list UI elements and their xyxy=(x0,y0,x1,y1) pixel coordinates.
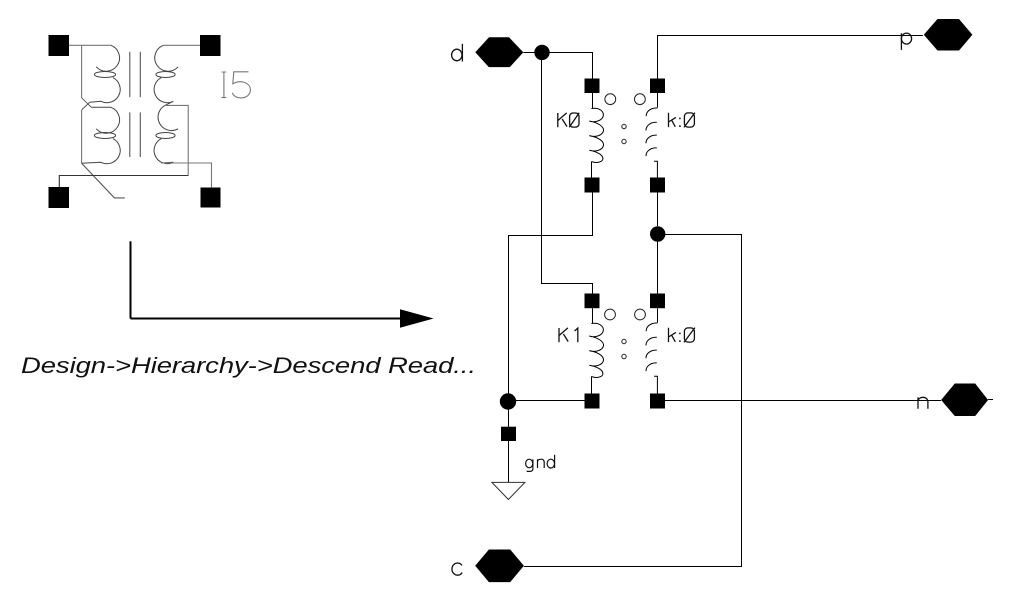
label d xyxy=(452,49,462,61)
terminal square bottom xyxy=(650,178,665,193)
polarity circle K0 xyxy=(605,94,616,105)
transformer symbol I5 xyxy=(49,35,251,208)
polarity circle k:0 xyxy=(635,94,646,105)
coupling dots xyxy=(622,339,626,343)
wire stem xyxy=(654,376,657,393)
coupling dots xyxy=(622,124,626,128)
arrow (descend) xyxy=(131,241,403,318)
pin 2 (top-right square) xyxy=(200,35,221,56)
wire secondary bottom to pin4 xyxy=(161,163,212,188)
arrow head xyxy=(400,309,434,328)
junction dot at d xyxy=(534,45,549,60)
dashed coil xyxy=(646,323,657,371)
pin 4 (bottom-right square) xyxy=(201,188,221,208)
wire secondary mid tap xyxy=(165,105,188,175)
label gnd xyxy=(526,455,555,472)
instance label I5 xyxy=(222,72,251,98)
terminal square K0 bottom xyxy=(585,178,600,193)
wire K0 bottom to ground rail xyxy=(509,193,593,394)
terminal square top xyxy=(650,294,665,309)
pin c hexagon xyxy=(475,550,524,583)
polarity circle xyxy=(635,309,646,320)
crossover X left xyxy=(82,98,92,110)
inductor K1 (primary) xyxy=(559,294,615,409)
pin d hexagon xyxy=(475,37,523,67)
wire left rail upper xyxy=(81,45,83,98)
terminal square K1 bottom xyxy=(585,394,600,409)
primary winding upper loops xyxy=(90,45,121,102)
tap lead (diagonal) xyxy=(82,163,125,198)
gnd terminal square xyxy=(501,427,516,441)
wire stem xyxy=(591,162,593,178)
label k:0 lower xyxy=(669,328,695,343)
label K0 xyxy=(558,113,579,128)
wire p xyxy=(658,36,923,79)
label n xyxy=(918,397,928,409)
dashed coil xyxy=(646,108,657,156)
wire stem xyxy=(592,93,594,109)
polarity circle K1 xyxy=(605,309,616,320)
wire junction down to k:0 lower xyxy=(657,241,659,294)
node c xyxy=(452,550,524,583)
label k:0 xyxy=(669,113,695,128)
wire junction to K1 xyxy=(516,400,585,402)
inductor K0 (primary) xyxy=(558,79,616,193)
label p xyxy=(900,33,902,50)
node n xyxy=(918,384,993,417)
inductor k:0 (secondary of K0) xyxy=(622,79,695,193)
wire stem xyxy=(654,161,657,177)
wire k:0 bottom to center junction xyxy=(657,193,659,227)
junction dot ground node xyxy=(500,393,516,409)
wire stem xyxy=(592,308,594,323)
wire left rail lower xyxy=(81,110,83,163)
wire junction to c rail xyxy=(524,235,742,567)
wire stem xyxy=(657,308,659,322)
ground symbol xyxy=(492,482,525,499)
wire stem xyxy=(657,93,659,108)
wire arrow horizontal xyxy=(131,318,403,320)
wire from pin1 to primary winding xyxy=(69,44,111,46)
wire junction to gnd terminal xyxy=(508,410,510,427)
pin 1 (top-left square) xyxy=(49,35,70,56)
junction dot center xyxy=(650,226,665,241)
terminal square bottom xyxy=(650,394,665,409)
coil K1 xyxy=(589,323,603,377)
terminal square K1 top xyxy=(585,294,600,309)
wire stem xyxy=(591,377,593,394)
inductor k:0 (secondary of K1) xyxy=(622,294,695,409)
wire d to K0 xyxy=(523,53,592,79)
wire n stub xyxy=(988,399,993,401)
label c xyxy=(452,563,462,575)
wire from pin2 to secondary winding xyxy=(163,44,200,46)
label K1 xyxy=(559,328,578,342)
primary winding lower loops xyxy=(82,107,121,163)
wire K1 secondary to n xyxy=(665,400,941,402)
wire bottom horizontal to pin3 xyxy=(59,176,188,188)
pin p hexagon xyxy=(924,19,973,51)
secondary winding lower loops xyxy=(154,105,178,163)
wire d junction down to K1 xyxy=(542,52,593,293)
core lines xyxy=(130,52,141,157)
pin n hexagon xyxy=(941,384,988,417)
secondary winding upper loops xyxy=(154,45,178,105)
wire arrow vertical xyxy=(130,241,132,318)
coil K0 xyxy=(589,108,603,162)
terminal square K0 top xyxy=(585,79,600,94)
node p xyxy=(901,19,972,51)
terminal square top xyxy=(650,79,665,94)
node d xyxy=(452,37,524,67)
svg-text:Design->Hierarchy->Descend Rea: Design->Hierarchy->Descend Read... xyxy=(21,354,476,379)
pin 3 (bottom-left square) xyxy=(49,187,70,208)
wire gnd stem xyxy=(508,441,510,483)
